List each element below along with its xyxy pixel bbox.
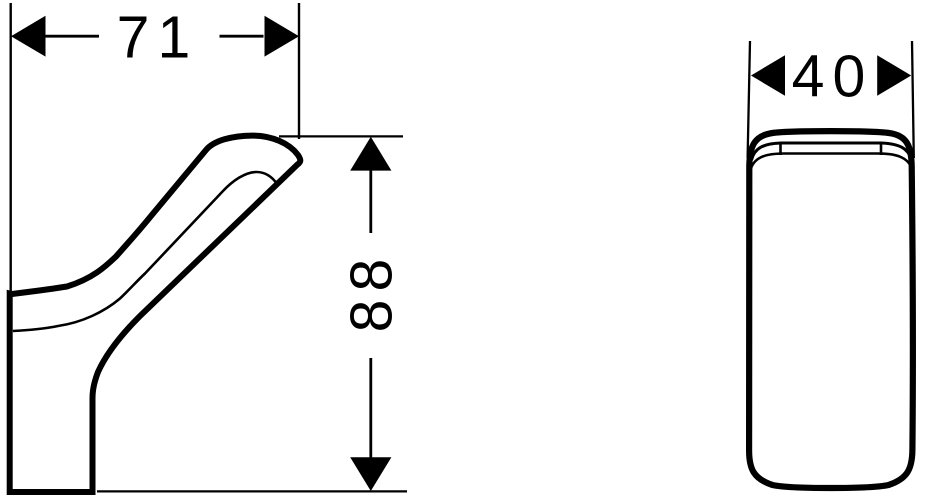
extension line bottom of 88 dim: [97, 490, 407, 492]
svg-text:71: 71: [117, 4, 199, 70]
front view top face line: [752, 143, 912, 160]
arrow down of 88: [350, 457, 391, 491]
extension line right of 71 dim: [298, 3, 300, 139]
hook front view body outline: [749, 131, 913, 488]
svg-text:88: 88: [339, 251, 405, 333]
arrow left of 71: [11, 16, 46, 57]
extension line top of 88 dim: [279, 135, 403, 137]
extension line right of 40 dim: [912, 41, 914, 158]
svg-text:40: 40: [792, 43, 874, 109]
front view right tick: [880, 143, 883, 155]
front view cap seam line: [751, 154, 913, 171]
dimension line 88 lower segment: [369, 358, 372, 458]
extension line left of 40 dim: [748, 41, 750, 158]
dimension line 71 left segment: [45, 35, 99, 38]
dimension line 71 right segment: [220, 35, 264, 38]
front view left tick: [779, 143, 782, 156]
arrow up of 88: [350, 137, 391, 171]
arrow left of 40: [751, 55, 785, 96]
dimension line 88 upper segment: [369, 169, 372, 233]
arrow right of 71: [265, 16, 300, 57]
arrow right of 40: [877, 55, 911, 96]
hook side view outline: [10, 136, 301, 492]
extension line left of 71 dim: [9, 3, 11, 295]
hook inner contour line: [13, 172, 278, 331]
